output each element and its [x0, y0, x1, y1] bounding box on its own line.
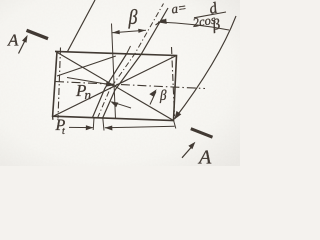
Pt dimension left tail with right-pointing arrow	[69, 126, 93, 128]
section marker A bottom-right: thick bar	[191, 129, 213, 138]
paper background	[0, 0, 240, 166]
beta top left arrowhead	[112, 30, 120, 34]
left edge overshoot below BL corner	[52, 116, 54, 120]
section marker A top-left: arrow	[19, 41, 25, 54]
section marker A top-left: thick bar	[27, 30, 49, 38]
formula leader arrow	[158, 22, 229, 30]
Pn dimension arrow (right side, pointing up-left at tooth)	[112, 102, 132, 108]
thin line L1 from top edge up-right	[68, 0, 96, 52]
left vertical dash-dot axis	[58, 48, 61, 119]
beta top right arrowhead	[138, 29, 146, 33]
beta dimension line at top	[112, 30, 146, 33]
workpiece rectangle	[53, 51, 177, 120]
tick crossing leader at tooth flank	[156, 20, 164, 26]
right edge extension below corner	[174, 121, 176, 129]
diagonal A (TL to BR)	[57, 52, 174, 121]
Pt extension tick left	[92, 118, 95, 130]
diagonal B (BL to TR)	[53, 56, 177, 117]
Pt extension tick right	[103, 118, 104, 130]
interior vertical reference line (beta extension)	[112, 24, 116, 120]
beta angle arc arrow at right	[150, 92, 156, 105]
tooth flank line right	[103, 8, 169, 118]
right vertical dash-dot axis	[172, 47, 175, 116]
Pt dimension right tail with left-pointing arrow	[105, 126, 175, 128]
tooth flank left extension above edge	[127, 46, 131, 54]
Pn dimension arrow (left side)	[67, 78, 112, 86]
paper grain	[0, 0, 240, 166]
tooth flank line left	[93, 54, 127, 118]
tooth centerline dash-dot	[98, 4, 164, 119]
section line S1 to bottom-right corner with arrowhead	[175, 16, 237, 119]
horizontal dash-dot centerline	[55, 82, 205, 89]
section marker A bottom-right: arrow	[182, 147, 192, 158]
interior thin line rising to vertical reference	[57, 56, 116, 76]
